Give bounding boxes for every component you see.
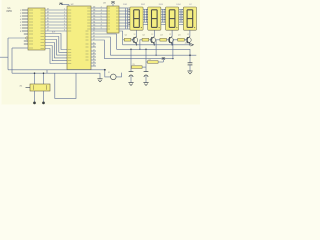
display DS3 segments figure-8 xyxy=(169,10,177,28)
svg-text:12: 12 xyxy=(187,34,189,36)
U2 lower right pin stubs xyxy=(91,44,96,66)
svg-text:4: 4 xyxy=(64,18,65,20)
junction dot x146 L2 xyxy=(145,49,147,51)
svg-text:19: 19 xyxy=(47,9,49,11)
wire rail L1 y44.8 to +5V flag xyxy=(123,44,191,46)
wire rail L3 y55.2 long line xyxy=(110,54,196,56)
wire Q4 emitter to rail xyxy=(189,43,191,44)
wire vertical x146 xyxy=(145,49,147,71)
wire crystal lead A down xyxy=(34,73,36,84)
wire corner x47 down to y73 line xyxy=(46,70,48,73)
wire Q1 emitter to rail xyxy=(136,43,138,44)
svg-text:2: 2 xyxy=(101,7,102,9)
transistor Q1 xyxy=(133,37,138,44)
resistor R3 base resistor body xyxy=(160,38,167,41)
svg-text:Q4: Q4 xyxy=(178,35,181,37)
display DS3 left pin ticks xyxy=(164,9,166,24)
transistor Q4 xyxy=(186,37,191,44)
svg-text:12: 12 xyxy=(169,34,171,36)
svg-text:K1: K1 xyxy=(108,72,110,74)
display DS4 body xyxy=(183,7,196,30)
riser rail L3 to R3 lead xyxy=(156,40,160,55)
display DS2 segments figure-8 xyxy=(152,10,160,28)
wire rail L2 y49.3 to C3 xyxy=(117,49,191,63)
ground below C3 xyxy=(187,71,192,74)
staircase wires U1 to U2 address lines xyxy=(45,34,67,64)
resistor R3 lead to base xyxy=(167,39,170,41)
svg-text:36: 36 xyxy=(93,16,95,18)
IC U2 MCU body xyxy=(67,6,91,70)
wire bottom routing loop xyxy=(55,73,76,98)
svg-text:8: 8 xyxy=(101,25,102,27)
U1 reference label text xyxy=(7,7,13,13)
svg-text:5: 5 xyxy=(64,21,65,23)
svg-text:38: 38 xyxy=(93,10,95,12)
svg-text:4: 4 xyxy=(20,19,21,21)
U3 pin name marks inside xyxy=(108,8,119,29)
resistor R2 base resistor body xyxy=(142,38,149,41)
wire digit select 1 to rail L1 xyxy=(91,31,123,45)
wire display DS1 bottom to Q1 collector xyxy=(136,30,138,36)
wire Q3 emitter to rail xyxy=(171,43,173,44)
svg-text:2: 2 xyxy=(20,13,21,15)
U2 VCC power symbol xyxy=(59,3,69,6)
svg-text:12: 12 xyxy=(151,34,153,36)
svg-text:R5: R5 xyxy=(133,64,135,66)
wire digit select 3 to rail L3 xyxy=(91,37,110,55)
resistor R5 right lead xyxy=(142,66,146,68)
svg-text:33: 33 xyxy=(93,25,95,27)
junction dots on emitter rail xyxy=(136,44,191,45)
svg-text:5: 5 xyxy=(20,22,21,24)
wire ground line y73 xyxy=(12,73,100,79)
crystal bottom lead B xyxy=(43,91,45,102)
wire crystal lead B down xyxy=(43,73,45,84)
svg-text:3: 3 xyxy=(101,10,102,12)
svg-text:R6: R6 xyxy=(149,59,151,61)
riser rail L1 to R1 lead xyxy=(123,39,125,41)
svg-text:4: 4 xyxy=(101,13,102,15)
buzzer/speaker LS1 circle xyxy=(111,74,117,80)
svg-text:9: 9 xyxy=(101,28,102,30)
junction dot x131 L2 xyxy=(130,49,132,51)
crystal X1 body xyxy=(30,84,50,91)
U3 right pin wires to display bus xyxy=(119,8,130,29)
svg-text:37: 37 xyxy=(93,13,95,15)
wire digit select 2 to rail L2 xyxy=(91,34,117,49)
transistor Q3 xyxy=(168,37,173,44)
junction dot reset node xyxy=(104,69,106,71)
crystal bottom lead A xyxy=(34,91,36,102)
riser rail L4 to R4 lead xyxy=(173,40,178,59)
wire XTAL net line y69.8 under U2 xyxy=(8,69,105,71)
svg-text:12: 12 xyxy=(134,34,136,36)
transistor Q2 xyxy=(150,37,155,44)
U3 VCC power symbol xyxy=(111,2,115,6)
svg-text:15: 15 xyxy=(47,21,49,23)
junction dot riser L3 xyxy=(155,55,156,56)
ground below C2 xyxy=(143,83,148,86)
svg-text:Q3: Q3 xyxy=(160,35,163,37)
wire display DS2 bottom to Q2 collector xyxy=(153,30,155,36)
wire left vertical rail x8 xyxy=(7,38,9,70)
svg-text:18: 18 xyxy=(47,12,49,14)
resistor R5 body xyxy=(132,66,143,69)
IC U3 body xyxy=(107,6,119,33)
resistor R2 lead to base xyxy=(149,39,152,41)
svg-text:6: 6 xyxy=(101,19,102,21)
wire rail L4 y58.6 xyxy=(104,58,172,60)
resistor R1 base resistor body xyxy=(124,38,131,41)
terminal dot A xyxy=(33,102,36,105)
svg-text:14: 14 xyxy=(47,24,49,26)
display DS1 segments figure-8 xyxy=(134,10,142,28)
IC U1 body xyxy=(28,8,45,50)
svg-text:39: 39 xyxy=(93,7,95,9)
svg-text:3: 3 xyxy=(20,16,21,18)
display DS4 left pin ticks xyxy=(182,9,184,24)
svg-text:34: 34 xyxy=(93,22,95,24)
resistor R4 base resistor body xyxy=(178,38,185,41)
svg-text:2: 2 xyxy=(64,12,65,14)
display DS1 left pin ticks xyxy=(128,9,130,24)
capacitor C2 plates xyxy=(144,72,149,83)
wire RST to left rail xyxy=(8,37,26,39)
junction dot x190 L3 crossing xyxy=(189,54,191,56)
svg-text:5: 5 xyxy=(101,16,102,18)
svg-text:Q2: Q2 xyxy=(142,35,145,37)
resistor R6 body xyxy=(148,61,159,64)
junction dot riser L4 xyxy=(172,58,173,59)
wire node down to buzzer xyxy=(105,70,111,77)
wire display DS3 bottom to Q3 collector xyxy=(171,30,173,36)
svg-text:35: 35 xyxy=(93,19,95,21)
bus wires U1 to U2 (8 lines) xyxy=(45,9,67,32)
terminal dot B xyxy=(42,102,45,105)
svg-text:8255: 8255 xyxy=(7,10,13,13)
U2 right port0 wires to U3 (8 lines) xyxy=(91,8,107,29)
svg-text:8: 8 xyxy=(20,31,21,33)
svg-text:12: 12 xyxy=(47,30,49,32)
wire display DS4 bottom to Q4 collector xyxy=(189,30,191,36)
junction dots on y73 line xyxy=(34,72,45,74)
wire vertical rail x12 xyxy=(11,48,13,73)
ground at x100 xyxy=(97,79,102,82)
display interconnect bus gaps xyxy=(143,9,148,24)
U2 pin name marks inside xyxy=(68,8,91,64)
svg-text:3: 3 xyxy=(64,15,65,17)
resistor R4 lead to base xyxy=(184,39,187,41)
svg-text:17: 17 xyxy=(47,15,49,17)
wire vertical x131 xyxy=(130,49,132,71)
svg-text:Q1: Q1 xyxy=(125,35,128,37)
resistor R1 lead to base xyxy=(131,39,134,41)
capacitor C1 plates xyxy=(129,72,134,83)
svg-text:32: 32 xyxy=(93,28,95,30)
wire buzzer right lead xyxy=(116,73,121,77)
U2 pin number texts lower right xyxy=(93,30,95,67)
U1 lower-left pin stubs xyxy=(24,34,28,44)
wire EA pin to x12 rail xyxy=(12,47,28,49)
U1 RST pin inversion bubble xyxy=(26,37,28,39)
resistor R6 leads xyxy=(146,61,163,63)
display DS2 left pin ticks xyxy=(146,9,148,24)
power symbol +5V at R6 xyxy=(162,58,165,62)
svg-text:6: 6 xyxy=(20,25,21,27)
ground below C1 xyxy=(128,83,133,86)
capacitor C3 plates xyxy=(188,63,193,71)
U1 left pins 1-8 with stubs xyxy=(20,10,28,33)
display DS3 body xyxy=(166,7,179,30)
wire Q2 emitter to rail xyxy=(153,43,155,44)
svg-text:16: 16 xyxy=(47,18,49,20)
svg-text:6: 6 xyxy=(64,24,65,26)
wire digit select 4 to rail L4 xyxy=(91,40,104,59)
crystal X1 label xyxy=(20,86,23,88)
U1 pin name marks inside xyxy=(29,10,44,49)
svg-text:7: 7 xyxy=(101,22,102,24)
svg-text:8: 8 xyxy=(64,30,65,32)
display DS4 segments figure-8 xyxy=(187,10,195,28)
display DS2 body xyxy=(148,7,161,30)
svg-text:1: 1 xyxy=(64,9,65,11)
segment bus verticals xyxy=(126,8,128,29)
svg-text:1: 1 xyxy=(20,10,21,12)
wire stub off-sheet left at y57 xyxy=(0,56,8,58)
svg-text:13: 13 xyxy=(47,27,49,29)
schematic sheet background xyxy=(2,0,201,105)
svg-text:7: 7 xyxy=(20,28,21,30)
+5V net flag arrow xyxy=(185,43,194,47)
riser rail L2 to R2 lead xyxy=(140,40,142,50)
display DS1 body xyxy=(130,7,143,30)
U2 pin number texts right side xyxy=(93,7,102,30)
crystal left stub xyxy=(26,87,31,89)
svg-text:7: 7 xyxy=(64,27,65,29)
crystal inner marks xyxy=(34,85,47,90)
junction dot riser L2 xyxy=(139,49,140,50)
